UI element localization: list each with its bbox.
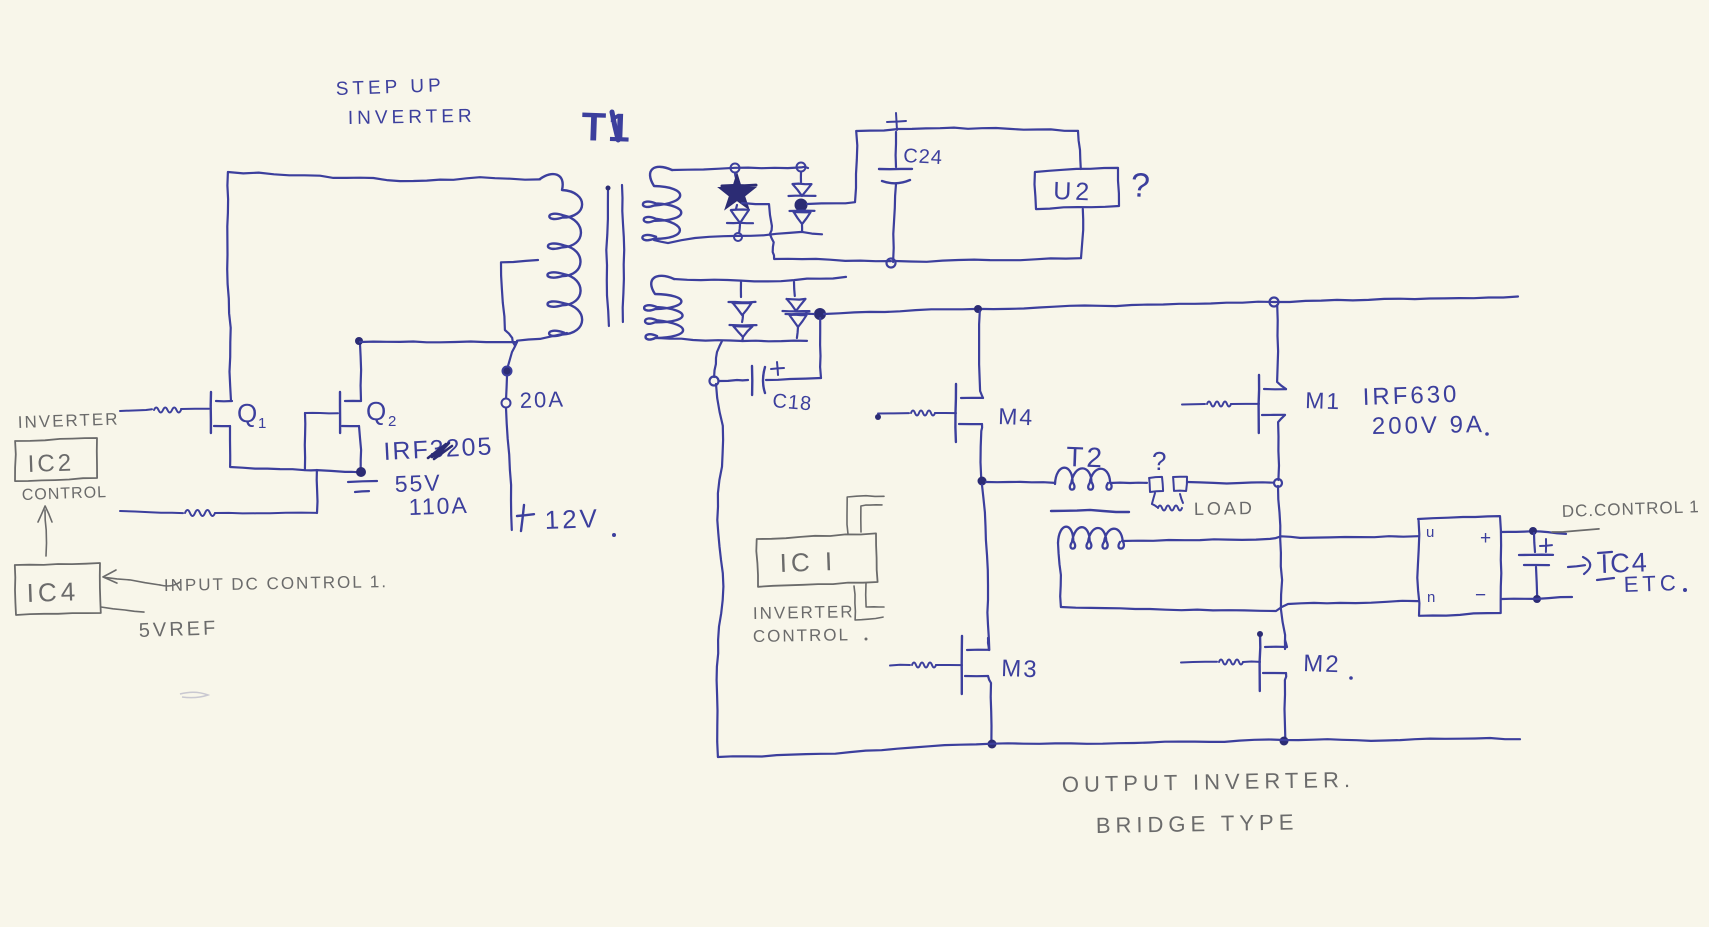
- wire C18 node to left plate: [719, 380, 748, 381]
- capacitor C18 plus sign: [771, 368, 784, 369]
- diode D4: [794, 212, 811, 224]
- svg-text:2: 2: [388, 413, 398, 430]
- capacitor C18: [751, 366, 754, 395]
- svg-text:−: −: [1475, 585, 1488, 606]
- svg-text:INVERTER: INVERTER: [17, 409, 119, 432]
- svg-text:110A: 110A: [408, 492, 469, 520]
- wire U2 bottom lead: [1081, 209, 1083, 258]
- capacitor C-out plus sign: [1540, 544, 1552, 547]
- node filter cap bottom junction: [1533, 595, 1541, 603]
- connector plug pin 1: [1149, 477, 1163, 492]
- svg-text:IC I: IC I: [779, 546, 836, 578]
- svg-text:M2: M2: [1303, 650, 1341, 678]
- node upper bridge D2 cathode terminal: [734, 233, 742, 241]
- wire U2 top lead: [1078, 131, 1081, 169]
- wire junction to T2 primary: [986, 482, 1055, 483]
- wire T1 primary bottom to fuse node: [517, 333, 567, 341]
- svg-text:LOAD: LOAD: [1194, 498, 1255, 519]
- transistor M3: [890, 664, 910, 667]
- IC1 pin hook bottom: [854, 586, 883, 620]
- transistor M2: [1181, 661, 1217, 664]
- svg-text:IC4: IC4: [26, 576, 79, 608]
- svg-text:C18: C18: [772, 390, 813, 415]
- node M2 source junction: [1280, 737, 1289, 746]
- node M4 drain junction: [974, 305, 982, 313]
- svg-text:CONTROL: CONTROL: [753, 625, 850, 646]
- transistor Q2: [305, 412, 338, 415]
- wire bridge positive output to C24 plus rail: [807, 128, 1078, 204]
- svg-text:?: ?: [1152, 446, 1168, 476]
- svg-text:CONTROL: CONTROL: [22, 484, 108, 504]
- controller IC1 box: [756, 533, 877, 586]
- svg-text:1: 1: [258, 415, 268, 432]
- diode D7: [793, 282, 796, 296]
- capacitor C24: [894, 132, 897, 167]
- diode D3: [793, 184, 812, 196]
- load pigtail: [1152, 493, 1157, 507]
- wire M3 drain to T2 junction: [982, 485, 989, 650]
- transformer T1 secondary upper winding: [642, 167, 681, 240]
- arrow INPUT DC CONTROL to IC4: [104, 577, 160, 585]
- svg-text:12V: 12V: [544, 503, 600, 535]
- svg-text:20A: 20A: [519, 386, 565, 413]
- wire plug to M1 source junction: [1187, 482, 1274, 484]
- wire T1 upper secondary bottom to bridge: [654, 232, 822, 243]
- transformer T2 secondary winding: [1058, 527, 1124, 549]
- svg-text:INPUT DC CONTROL 1.: INPUT DC CONTROL 1.: [164, 572, 388, 595]
- transformer T1 secondary lower winding: [644, 276, 683, 340]
- node upper bridge mid blob: [795, 199, 808, 212]
- capacitor C24 plus sign: [887, 121, 906, 122]
- transistor Q1: [120, 409, 152, 411]
- wire D2 to lower terminal: [738, 224, 741, 233]
- svg-text:Q: Q: [366, 396, 388, 426]
- wire lower secondary bottom to C18 node: [714, 341, 722, 377]
- svg-text:n: n: [1427, 589, 1437, 606]
- wire T2 secondary left down: [1058, 543, 1061, 607]
- node upper bridge D1 anode terminal: [731, 164, 740, 173]
- svg-text:?: ?: [1129, 166, 1153, 205]
- wire IC4 5VREF lead: [101, 607, 144, 612]
- diode D5: [740, 282, 742, 297]
- transformer T2 primary winding: [1055, 468, 1112, 490]
- arrow IC4 to IC2: [45, 510, 47, 556]
- transformer T1 core: [606, 188, 609, 326]
- wire D4 to bottom: [801, 225, 803, 231]
- wire Q1 source to ground node: [230, 426, 358, 472]
- svg-text:ETC: ETC: [1623, 570, 1680, 597]
- wire Q2 gate drop: [304, 413, 307, 470]
- wire T2 secondary bottom to rectifier input: [1061, 601, 1418, 611]
- transformer T2 core: [1051, 510, 1129, 512]
- controller IC4 box: [15, 563, 101, 615]
- node T2 primary left junction: [978, 477, 987, 486]
- paper smudge: [180, 692, 208, 697]
- svg-text:Q: Q: [237, 398, 259, 428]
- label +12V: [521, 505, 524, 531]
- wire T1 upper secondary top to bridge D1 D3: [672, 167, 808, 170]
- node M3 source junction: [988, 740, 997, 749]
- wire Q2 drain up to center tap node: [360, 342, 361, 401]
- wire upper bridge col1 mid to bottom rail: [742, 203, 891, 261]
- wire D1 to D2: [736, 205, 737, 209]
- wire center tap node to fuse: [360, 340, 517, 343]
- wire rectifier plus output: [1501, 531, 1566, 534]
- wire output inverter bottom rail: [718, 738, 1520, 757]
- svg-text:OUTPUT INVERTER.: OUTPUT INVERTER.: [1062, 767, 1356, 797]
- wire T2 secondary right to rectifier input: [1122, 536, 1418, 541]
- node upper bridge D3 anode terminal: [797, 163, 806, 172]
- svg-text:U2: U2: [1053, 177, 1094, 206]
- wire M2 drain to M1 source junction: [1278, 486, 1285, 649]
- svg-text:T1: T1: [581, 105, 633, 151]
- svg-text:C24: C24: [903, 145, 944, 169]
- svg-text:M4: M4: [998, 403, 1035, 430]
- svg-text:M1: M1: [1305, 387, 1342, 414]
- svg-text:M3: M3: [1001, 655, 1039, 683]
- wire T2 primary to plug: [1110, 482, 1147, 485]
- node lower bridge positive blob: [814, 308, 826, 320]
- transistor M1: [1182, 403, 1205, 406]
- wire left bus of output inverter: [716, 384, 723, 757]
- node M2 gate bar dot: [1257, 631, 1263, 637]
- wire T1 lower secondary bottom to bridge: [658, 338, 807, 341]
- wire bottom rail C24 to U2: [895, 258, 1081, 262]
- diode D8: [789, 315, 806, 327]
- wire D3 stub: [800, 172, 802, 182]
- node M1 drain junction: [1270, 298, 1279, 307]
- svg-text:INVERTER: INVERTER: [348, 106, 476, 129]
- svg-text:IRF630: IRF630: [1362, 381, 1460, 411]
- node Q2 source ground dot: [356, 467, 366, 477]
- transformer T1 primary winding: [540, 174, 582, 336]
- controller IC2 box: [15, 438, 97, 481]
- node Q2 drain junction: [355, 337, 363, 345]
- svg-text:STEP UP: STEP UP: [335, 75, 445, 100]
- wire gate riser: [316, 470, 319, 513]
- wire C18 right to bridge positive node: [819, 318, 822, 378]
- wire Q2 source: [359, 426, 361, 470]
- connector plug pin 2: [1173, 477, 1187, 491]
- node M4 gate lead dot: [875, 414, 881, 420]
- IC1 pin hook top: [847, 496, 884, 534]
- node filter cap top junction: [1529, 527, 1537, 535]
- bridge rectifier box: [1417, 516, 1501, 616]
- ground symbol: [348, 481, 377, 482]
- svg-text:BRIDGE TYPE: BRIDGE TYPE: [1096, 809, 1299, 838]
- wire lower gate run with resistor: [120, 511, 183, 513]
- wire rectifier minus output: [1502, 597, 1572, 599]
- capacitor C-out: [1534, 533, 1535, 552]
- wire lower bridge mid link: [806, 313, 814, 314]
- diode D2: [731, 210, 749, 224]
- wire T1 lower secondary top to bridge D5 D7: [674, 277, 846, 282]
- svg-text:u: u: [1426, 524, 1436, 541]
- wire Q1 drain to T1 primary top: [227, 172, 540, 401]
- wire T1 center tap to node: [501, 260, 538, 345]
- diode D1 (over-inked): [735, 173, 736, 178]
- svg-text:+: +: [1480, 528, 1493, 549]
- component U2 box: [1035, 168, 1120, 209]
- transistor M4: [878, 412, 909, 414]
- fuse F1 20A: [508, 342, 517, 366]
- svg-text:IC2: IC2: [27, 449, 74, 478]
- node C24 bottom junction: [887, 259, 896, 268]
- svg-text:5VREF: 5VREF: [138, 617, 218, 642]
- wire output inverter top rail: [824, 297, 1518, 315]
- node C18 left junction: [710, 377, 719, 386]
- node M1 source junction: [1274, 479, 1282, 487]
- svg-text:INVERTER: INVERTER: [753, 602, 855, 623]
- wire DC control (pencil): [1552, 529, 1599, 532]
- svg-text:200V 9A: 200V 9A: [1372, 411, 1486, 440]
- diode D6: [741, 315, 744, 322]
